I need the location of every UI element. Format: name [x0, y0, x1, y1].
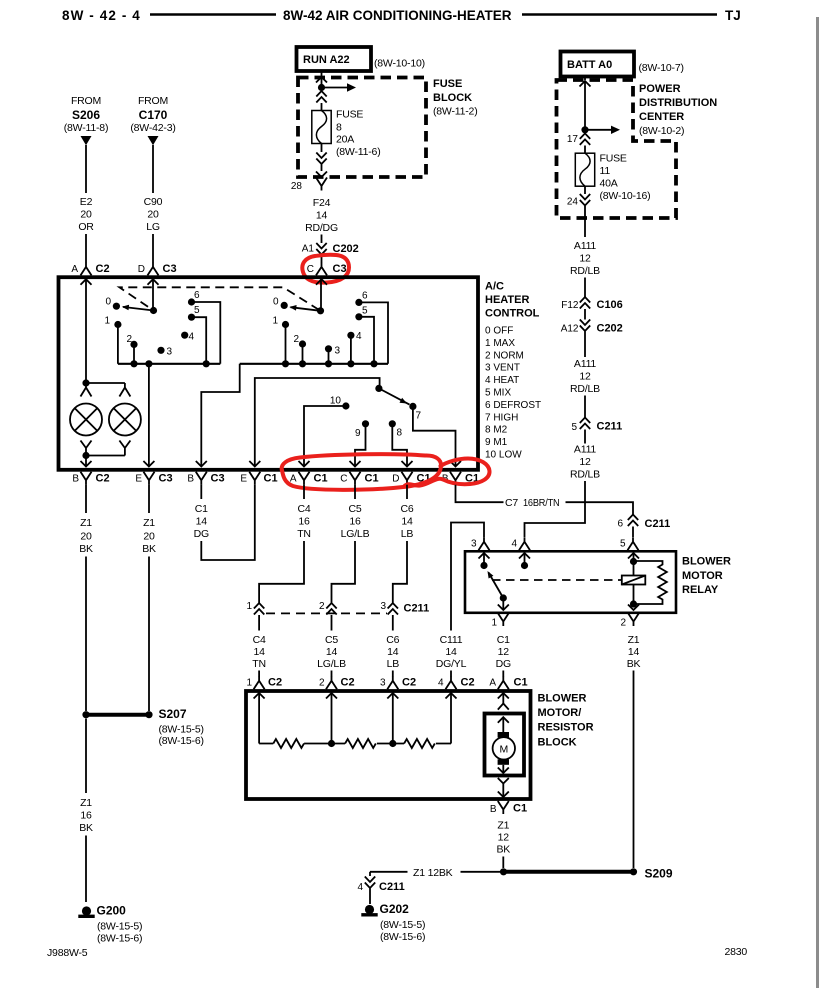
connector 3 C211 — [380, 601, 429, 615]
svg-text:BLOWER: BLOWER — [682, 556, 731, 568]
svg-text:C1: C1 — [514, 677, 528, 689]
motor sub fork below — [498, 778, 509, 788]
fuse 11 40A — [575, 153, 594, 186]
svg-text:(8W-15-6): (8W-15-6) — [380, 931, 425, 943]
svg-text:D: D — [138, 264, 145, 275]
illumination lamp 2 — [109, 404, 141, 436]
svg-text:BATT A0: BATT A0 — [567, 59, 612, 71]
svg-text:BK: BK — [627, 658, 641, 670]
label FUSE 11 40A — [600, 153, 651, 203]
blower motor relay box — [465, 551, 676, 613]
svg-text:16: 16 — [349, 516, 361, 528]
svg-text:CENTER: CENTER — [639, 111, 684, 123]
wire lamp 2 bottom to junction — [86, 455, 125, 457]
svg-text:RD/LB: RD/LB — [570, 469, 600, 481]
wire C6 14 LB — [392, 615, 394, 631]
svg-text:0: 0 — [105, 297, 111, 308]
label C5 14 LG/LB — [317, 634, 346, 670]
svg-text:FROM: FROM — [71, 95, 101, 107]
motor pin A arrow in — [498, 693, 509, 704]
label C6 14 LB — [386, 634, 399, 670]
svg-text:C1: C1 — [264, 473, 278, 485]
svg-text:C2: C2 — [96, 263, 110, 275]
svg-text:(8W-15-5): (8W-15-5) — [380, 919, 425, 931]
svg-text:24: 24 — [567, 197, 579, 208]
wire to S209 junction — [502, 857, 504, 869]
label S207 — [159, 707, 204, 747]
svg-text:2 NORM: 2 NORM — [485, 350, 524, 361]
wire and arrow out at B C2 — [81, 456, 92, 467]
svg-text:14: 14 — [316, 210, 328, 222]
svg-text:M: M — [500, 744, 509, 756]
fan switch contact 3 — [157, 347, 172, 358]
svg-text:17: 17 — [567, 134, 579, 145]
svg-text:C90: C90 — [144, 196, 163, 208]
pin 4 arrow in — [446, 693, 457, 744]
wire to C2 — [85, 234, 87, 263]
arrow out of fuse block — [316, 172, 327, 178]
motor arrow in — [498, 717, 509, 732]
label A111 12 RD/LB third — [570, 444, 600, 481]
wire from RUN A22 — [321, 71, 323, 76]
svg-text:20: 20 — [143, 531, 155, 543]
fuse block dashed box — [298, 78, 426, 178]
svg-text:LB: LB — [387, 658, 400, 670]
svg-text:Z1: Z1 — [143, 517, 155, 529]
wire to G202 — [369, 889, 371, 905]
svg-text:C106: C106 — [597, 299, 623, 311]
wire and arrow out at E C3 — [143, 364, 154, 467]
arrow out at D C1 — [402, 461, 413, 467]
svg-text:Z1: Z1 — [80, 797, 92, 809]
arrow into box at D C3 — [148, 279, 159, 310]
svg-text:(8W-11-2): (8W-11-2) — [433, 106, 478, 118]
svg-text:RD/LB: RD/LB — [570, 265, 600, 277]
connector chevrons below dot — [316, 91, 326, 103]
svg-text:C5: C5 — [325, 634, 338, 646]
connector pin 24 chevrons — [567, 194, 590, 208]
pin 3 arrow in — [387, 693, 398, 744]
svg-text:E2: E2 — [80, 196, 93, 208]
svg-text:B: B — [490, 804, 497, 815]
relay internal resistor — [634, 561, 667, 604]
resistor block pin 2 fork — [319, 676, 355, 689]
svg-text:20: 20 — [80, 209, 92, 221]
svg-text:1 MAX: 1 MAX — [485, 338, 515, 349]
junction dot lamp return — [82, 452, 89, 459]
connector 5 C211 — [571, 418, 622, 434]
label FUSE 8 20A — [336, 109, 381, 159]
svg-text:C1: C1 — [314, 473, 328, 485]
branch wire Z1 12BK — [370, 867, 504, 879]
svg-text:RELAY: RELAY — [682, 584, 719, 596]
motor armature M — [493, 737, 515, 759]
svg-text:C211: C211 — [404, 603, 430, 615]
bottom connector E C3 — [135, 472, 172, 485]
svg-text:14: 14 — [196, 516, 208, 528]
connector F12 C106 — [561, 297, 623, 311]
svg-text:A111: A111 — [574, 358, 597, 370]
svg-text:C3: C3 — [211, 473, 225, 485]
svg-text:FROM: FROM — [138, 95, 168, 107]
wire below C211 — [584, 430, 586, 444]
relay pin 2 arrow out — [628, 605, 639, 611]
jumper B C3 to E C1 — [201, 485, 255, 560]
svg-text:B: B — [187, 474, 194, 485]
label C90 20 LG — [144, 196, 163, 233]
contact 1 drop — [117, 325, 119, 364]
svg-text:1: 1 — [246, 601, 252, 612]
relay lower node dot — [630, 600, 637, 607]
label Z1 20 BK left — [79, 517, 93, 555]
lamp 2 top fork — [119, 383, 130, 397]
bottom connector A C1 — [290, 472, 328, 485]
label C6 14 LB — [400, 503, 413, 540]
svg-text:C211: C211 — [645, 518, 671, 530]
svg-text:(8W-10-2): (8W-10-2) — [639, 125, 684, 137]
svg-text:J988W-5: J988W-5 — [47, 947, 88, 959]
wire below C202 — [584, 332, 586, 358]
wire Z1 16 BK — [85, 719, 87, 794]
fan switch bus wiring — [118, 363, 220, 365]
svg-text:C202: C202 — [597, 323, 623, 335]
relay pin 5 fork — [620, 537, 639, 550]
svg-text:(8W-15-5): (8W-15-5) — [159, 724, 204, 736]
svg-text:RESISTOR: RESISTOR — [538, 722, 594, 734]
contact 2 drop — [302, 344, 304, 364]
svg-text:C5: C5 — [348, 503, 361, 515]
svg-text:20A: 20A — [336, 134, 354, 146]
mode switch contact 0 — [273, 297, 288, 310]
svg-text:2: 2 — [319, 678, 325, 689]
power distribution center dashed box — [557, 80, 677, 218]
label C4 14 TN — [252, 634, 266, 670]
wire to blower motor A — [502, 671, 504, 677]
svg-text:MOTOR/: MOTOR/ — [538, 707, 582, 719]
junction dot PDC feed — [581, 126, 588, 133]
svg-text:4 HEAT: 4 HEAT — [485, 375, 519, 386]
speed contact 9 — [355, 420, 369, 439]
fan switch contact 5 — [188, 305, 200, 321]
connector D C3 — [138, 262, 177, 275]
contact 9 wire to C C1 — [355, 424, 366, 461]
wire to resistor block 2 — [331, 671, 333, 677]
motor arrow out — [498, 765, 509, 773]
mode switch wiper pivot dot — [317, 307, 324, 314]
wire to resistor block 3 — [392, 671, 394, 677]
svg-text:G200: G200 — [97, 904, 127, 918]
speed selector pivot dot — [375, 385, 382, 392]
svg-text:14: 14 — [628, 646, 640, 658]
svg-text:C1: C1 — [365, 473, 379, 485]
svg-text:3 VENT: 3 VENT — [485, 363, 520, 374]
contact 5 branch — [192, 317, 207, 364]
svg-text:8 M2: 8 M2 — [485, 425, 508, 436]
svg-text:12: 12 — [498, 832, 510, 844]
svg-text:5: 5 — [194, 305, 200, 316]
label Z1 16 BK — [79, 797, 93, 834]
svg-text:3: 3 — [380, 678, 386, 689]
A/C heater control box — [59, 277, 479, 470]
ground G202 — [361, 902, 425, 943]
svg-text:2: 2 — [293, 334, 299, 345]
svg-text:2830: 2830 — [725, 946, 748, 958]
bottom connector D C1 — [392, 472, 430, 485]
BATT A0 box — [561, 52, 684, 77]
svg-text:C: C — [340, 474, 347, 485]
svg-text:C3: C3 — [163, 263, 177, 275]
svg-text:1: 1 — [104, 316, 110, 327]
svg-text:3: 3 — [167, 347, 173, 358]
motor sub fork — [498, 704, 509, 710]
legend positions list — [485, 326, 541, 461]
label Z1 12 BK — [496, 820, 510, 856]
svg-text:E: E — [135, 474, 142, 485]
wire pin5 to coil and lower node — [633, 562, 635, 605]
svg-text:8W - 42 - 4: 8W - 42 - 4 — [62, 8, 141, 23]
label F24 14 RD/DG — [305, 197, 338, 234]
svg-text:1: 1 — [272, 316, 278, 327]
svg-text:8W-42 AIR CONDITIONING-HEATER: 8W-42 AIR CONDITIONING-HEATER — [283, 8, 512, 23]
svg-text:10 LOW: 10 LOW — [485, 450, 522, 461]
wire down to relay pin 4 — [525, 481, 586, 537]
label BLOWER MOTOR RELAY — [682, 556, 731, 597]
svg-text:C170: C170 — [139, 108, 168, 122]
svg-text:C1: C1 — [513, 803, 527, 815]
red annotation around C1 connector row — [282, 454, 441, 490]
svg-text:HEATER: HEATER — [485, 294, 529, 306]
label BLOWER MOTOR RESISTOR BLOCK — [538, 693, 594, 749]
relay blade to pin 1 arrow — [498, 598, 509, 610]
wire to C3 — [321, 255, 323, 263]
wire to G200 — [85, 836, 87, 903]
wire below fuse 11 — [584, 187, 586, 195]
wire to relay pin 5 — [632, 527, 634, 538]
wire Z1 20 BK left — [85, 485, 87, 513]
branch wire with arrow — [585, 126, 620, 134]
dashed link C211 row — [266, 612, 387, 614]
svg-text:6: 6 — [362, 291, 368, 302]
svg-text:C111: C111 — [440, 634, 463, 646]
svg-text:S209: S209 — [645, 867, 673, 881]
svg-text:10: 10 — [330, 396, 342, 407]
wire below fuse 8 — [321, 144, 323, 153]
svg-text:TJ: TJ — [725, 8, 741, 23]
svg-text:C6: C6 — [400, 503, 413, 515]
mode switch contact 2 — [293, 334, 306, 348]
svg-text:S206: S206 — [72, 108, 100, 122]
chevrons below fuse 8 — [316, 153, 326, 165]
svg-text:FUSE: FUSE — [336, 109, 363, 121]
bus exit to B C3 — [201, 364, 239, 461]
svg-text:C7: C7 — [505, 497, 518, 509]
resistor chain junction dots — [328, 740, 397, 747]
relay coil — [622, 576, 646, 585]
wire from BATT A0 — [584, 77, 586, 81]
svg-text:(8W-15-6): (8W-15-6) — [159, 735, 204, 747]
svg-text:DG: DG — [496, 658, 511, 670]
svg-text:6: 6 — [617, 519, 623, 530]
resistor element 3 — [404, 739, 435, 748]
svg-text:C4: C4 — [297, 503, 310, 515]
wire to C211 — [584, 396, 586, 418]
svg-text:E: E — [240, 474, 247, 485]
speed contact 10 — [330, 396, 350, 410]
svg-text:D: D — [392, 474, 399, 485]
svg-text:BLOCK: BLOCK — [433, 92, 472, 104]
svg-text:8: 8 — [336, 122, 342, 134]
svg-text:(8W-11-6): (8W-11-6) — [336, 146, 381, 158]
svg-text:3: 3 — [335, 346, 341, 357]
resistor block pin 4 fork — [438, 676, 475, 689]
wire to C202 — [321, 235, 323, 244]
svg-text:(8W-10-10): (8W-10-10) — [374, 58, 425, 70]
svg-text:5: 5 — [620, 539, 626, 550]
bottom connector B C1 — [442, 472, 479, 485]
wire C6 14 LB — [406, 485, 408, 499]
fuse 8 20A — [312, 111, 331, 144]
label C7 16BR/TN — [505, 497, 560, 509]
svg-text:20: 20 — [80, 531, 92, 543]
svg-text:12: 12 — [498, 646, 510, 658]
svg-text:OR: OR — [78, 221, 94, 233]
svg-text:BLOWER: BLOWER — [538, 693, 587, 705]
svg-text:6 DEFROST: 6 DEFROST — [485, 400, 541, 411]
svg-text:LB: LB — [401, 528, 414, 540]
wire to S207 right — [148, 557, 150, 712]
label POWER DISTRIBUTION CENTER — [639, 83, 717, 137]
svg-text:12: 12 — [579, 253, 591, 265]
junction dot fuse feed — [318, 84, 325, 91]
speed selector blade arrow — [379, 388, 410, 404]
wire E2 20 OR — [85, 145, 87, 193]
speed selector feed line — [255, 378, 380, 467]
svg-text:Z1: Z1 — [497, 820, 509, 832]
arrow out at B C3 — [196, 461, 207, 467]
arrow into PDC — [580, 81, 591, 130]
contact 6 branch — [359, 302, 388, 363]
mode switch contact 4 — [347, 331, 362, 342]
svg-text:4: 4 — [356, 331, 362, 342]
svg-text:LG/LB: LG/LB — [341, 528, 370, 540]
wire C1 14 DG — [200, 485, 202, 499]
connector A12 C202 — [561, 320, 623, 335]
svg-text:2: 2 — [620, 618, 626, 629]
motor brush bottom — [498, 759, 509, 765]
svg-text:A12: A12 — [561, 324, 579, 335]
svg-text:BK: BK — [79, 822, 93, 834]
svg-text:(8W-10-7): (8W-10-7) — [639, 62, 684, 74]
arrow out at C C1 — [350, 461, 361, 467]
svg-text:C2: C2 — [268, 677, 282, 689]
svg-text:C2: C2 — [461, 677, 475, 689]
svg-text:(8W-11-8): (8W-11-8) — [64, 122, 109, 134]
C7 line right segment — [566, 502, 634, 514]
connector C C3 — [307, 262, 347, 275]
contact 3 drop — [328, 349, 330, 364]
svg-text:20: 20 — [147, 209, 159, 221]
svg-text:C: C — [307, 264, 314, 275]
label Z1 14 BK — [627, 634, 641, 670]
wire Z1 20 BK second — [148, 485, 150, 513]
bottom connector B C2 — [72, 472, 109, 485]
svg-text:POWER: POWER — [639, 83, 681, 95]
connector 4 C211 — [357, 877, 404, 894]
svg-text:28: 28 — [291, 181, 303, 192]
svg-text:C1: C1 — [195, 503, 208, 515]
fan switch contact 4 — [181, 332, 194, 343]
contact 10 wire to A C1 — [304, 406, 346, 461]
svg-text:DG/YL: DG/YL — [436, 658, 467, 670]
bus junction dots mode switch — [282, 360, 378, 367]
wire jog to 1 C211 — [259, 541, 304, 603]
fan switch contact 1 — [104, 316, 121, 329]
svg-text:BK: BK — [142, 543, 156, 555]
svg-text:11: 11 — [600, 165, 611, 177]
contact 8 wire to D C1 — [392, 424, 407, 461]
svg-text:C3: C3 — [333, 263, 347, 275]
svg-text:RD/LB: RD/LB — [570, 383, 600, 395]
svg-text:0: 0 — [273, 297, 279, 308]
pin 1 arrow in — [254, 693, 265, 744]
motor brush top — [498, 732, 509, 738]
lamp 1 top fork — [81, 383, 92, 397]
svg-text:1: 1 — [246, 678, 252, 689]
svg-text:6: 6 — [194, 290, 200, 301]
connector pin 17 chevrons — [567, 133, 590, 145]
resistor element 1 — [273, 739, 304, 748]
mode switch contact 1 — [272, 316, 289, 329]
fan switch contact 2 — [126, 334, 137, 348]
wire to resistor block 1 — [258, 671, 260, 677]
fan switch wiper pivot dot — [150, 307, 157, 314]
arrow into box at C C3 — [316, 279, 327, 311]
wire down to 4 C211 — [369, 872, 371, 876]
svg-text:BK: BK — [79, 543, 93, 555]
label A111 12 RD/LB first — [570, 240, 600, 277]
relay pin 3 fork — [471, 537, 490, 550]
node C170 feed label — [130, 95, 175, 134]
svg-text:BK: BK — [496, 844, 510, 856]
wire jog to 3 C211 — [393, 541, 407, 603]
splice S209 — [500, 867, 673, 881]
arrow out at A C1 — [299, 461, 310, 467]
svg-text:16: 16 — [298, 516, 310, 528]
svg-text:RD/DG: RD/DG — [305, 222, 338, 234]
svg-text:C3: C3 — [159, 473, 173, 485]
svg-text:Z1 12BK: Z1 12BK — [413, 867, 453, 879]
contact 7 wire to B C1 — [413, 406, 456, 461]
svg-text:5 MIX: 5 MIX — [485, 388, 511, 399]
svg-text:0 OFF: 0 OFF — [485, 326, 513, 337]
svg-text:F12: F12 — [561, 300, 579, 311]
connector 1 C211 — [246, 601, 264, 615]
svg-text:14: 14 — [445, 646, 457, 658]
svg-text:C211: C211 — [379, 881, 405, 893]
mode switch wiper arrow — [291, 307, 321, 311]
ganged switch dashed linkage — [119, 287, 320, 311]
label C5 16 LG/LB — [341, 503, 370, 540]
wire to fuse 11 — [584, 146, 586, 154]
illumination lamp 1 — [70, 404, 102, 436]
bottom connector C C1 — [340, 472, 378, 485]
speed contact 7 — [409, 403, 421, 422]
svg-text:B: B — [72, 474, 79, 485]
label A/C HEATER CONTROL — [485, 281, 540, 320]
blower motor pin A fork — [489, 676, 527, 689]
svg-text:F24: F24 — [313, 197, 331, 209]
connector 6 C211 — [617, 515, 670, 531]
